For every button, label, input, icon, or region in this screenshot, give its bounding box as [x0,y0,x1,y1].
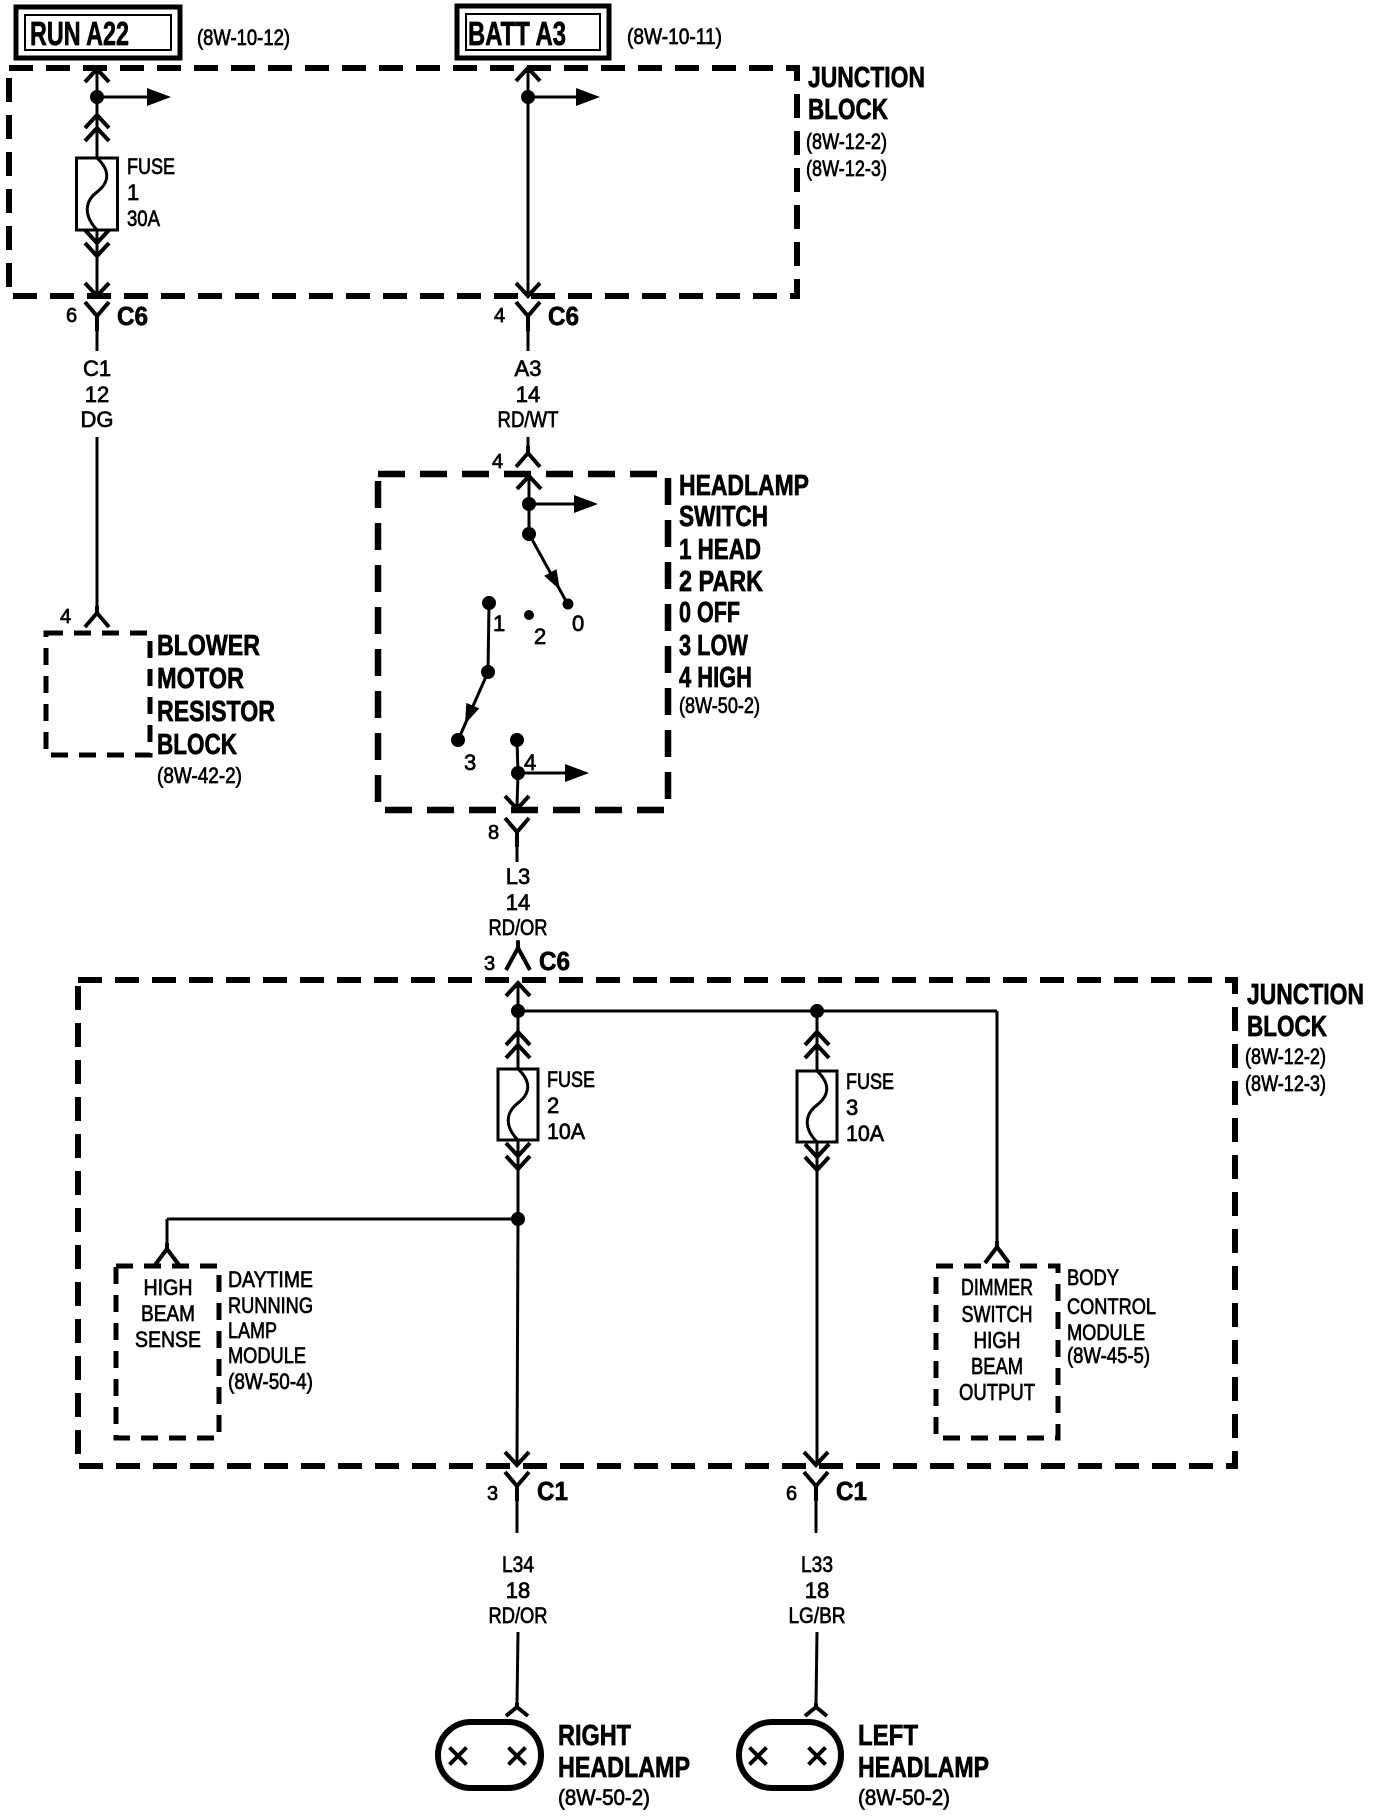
svg-text:LEFT: LEFT [858,1720,918,1752]
svg-text:FUSE: FUSE [846,1069,894,1094]
svg-text:1: 1 [493,611,505,636]
svg-text:BEAM: BEAM [971,1353,1023,1379]
svg-text:CONTROL: CONTROL [1067,1294,1156,1319]
svg-text:2: 2 [534,624,546,649]
svg-text:BLOCK: BLOCK [1247,1011,1327,1043]
svg-text:12: 12 [85,382,109,407]
svg-text:0 OFF: 0 OFF [679,597,740,629]
svg-text:RD/OR: RD/OR [489,1603,548,1628]
svg-text:3: 3 [487,1483,498,1505]
svg-text:BLOWER: BLOWER [157,630,260,662]
svg-text:BLOCK: BLOCK [157,729,237,761]
svg-text:BATT A3: BATT A3 [468,15,566,52]
svg-text:C1: C1 [83,356,111,381]
svg-text:(8W-12-3): (8W-12-3) [1245,1071,1326,1096]
svg-text:RIGHT: RIGHT [558,1720,631,1752]
svg-text:4: 4 [492,451,503,473]
svg-text:JUNCTION: JUNCTION [808,62,925,94]
svg-text:C6: C6 [548,301,579,331]
svg-text:18: 18 [805,1578,829,1603]
svg-text:(8W-50-4): (8W-50-4) [228,1369,313,1394]
svg-text:L3: L3 [506,864,530,889]
svg-text:6: 6 [66,305,77,327]
svg-text:DIMMER: DIMMER [961,1274,1033,1300]
svg-text:3 LOW: 3 LOW [679,630,748,662]
svg-text:3: 3 [464,750,476,775]
svg-text:DG: DG [81,407,114,432]
svg-text:2: 2 [547,1093,559,1118]
svg-text:(8W-50-2): (8W-50-2) [558,1785,650,1810]
svg-text:30A: 30A [127,206,160,231]
svg-text:1 HEAD: 1 HEAD [679,534,761,566]
svg-text:0: 0 [572,611,584,636]
svg-text:BEAM: BEAM [141,1301,195,1326]
svg-text:C1: C1 [836,1476,867,1506]
svg-text:HIGH: HIGH [974,1327,1021,1353]
svg-text:C6: C6 [539,946,570,976]
svg-text:8: 8 [488,822,499,844]
svg-text:FUSE: FUSE [547,1067,595,1092]
svg-text:RESISTOR: RESISTOR [157,696,275,728]
svg-text:SWITCH: SWITCH [679,501,768,533]
svg-text:6: 6 [786,1483,797,1505]
svg-text:L33: L33 [801,1552,833,1577]
svg-text:4: 4 [60,606,71,628]
svg-text:1: 1 [127,180,139,205]
svg-text:(8W-10-11): (8W-10-11) [627,24,722,49]
svg-text:3: 3 [846,1095,858,1120]
svg-text:(8W-50-2): (8W-50-2) [858,1785,950,1810]
svg-text:10A: 10A [846,1121,884,1146]
svg-text:RUN A22: RUN A22 [30,15,129,52]
svg-text:LG/BR: LG/BR [789,1603,846,1628]
svg-text:MODULE: MODULE [1067,1320,1145,1345]
svg-text:LAMP: LAMP [228,1318,277,1343]
svg-text:(8W-45-5): (8W-45-5) [1067,1343,1150,1368]
svg-text:C1: C1 [537,1476,568,1506]
svg-text:HEADLAMP: HEADLAMP [858,1752,989,1784]
svg-text:RUNNING: RUNNING [228,1293,313,1318]
svg-text:MODULE: MODULE [228,1343,306,1368]
svg-text:FUSE: FUSE [127,154,175,179]
svg-text:18: 18 [506,1578,530,1603]
svg-text:14: 14 [516,382,540,407]
svg-text:C6: C6 [117,301,148,331]
svg-text:RD/WT: RD/WT [498,407,559,432]
svg-text:3: 3 [484,953,495,975]
svg-text:(8W-42-2): (8W-42-2) [157,763,242,788]
svg-text:SENSE: SENSE [135,1327,201,1352]
svg-text:MOTOR: MOTOR [157,663,244,695]
svg-text:2 PARK: 2 PARK [679,566,763,598]
svg-text:A3: A3 [515,356,542,381]
svg-text:(8W-50-2): (8W-50-2) [679,693,760,718]
svg-text:(8W-10-12): (8W-10-12) [197,25,290,50]
svg-text:JUNCTION: JUNCTION [1247,979,1364,1011]
svg-text:HEADLAMP: HEADLAMP [679,470,809,502]
svg-text:BODY: BODY [1067,1265,1119,1290]
svg-text:DAYTIME: DAYTIME [228,1267,313,1292]
svg-text:HEADLAMP: HEADLAMP [558,1752,690,1784]
svg-text:(8W-12-2): (8W-12-2) [1245,1044,1326,1069]
svg-text:SWITCH: SWITCH [962,1301,1033,1327]
svg-text:4: 4 [494,305,505,327]
svg-text:4 HIGH: 4 HIGH [679,662,752,694]
svg-text:L34: L34 [502,1552,534,1577]
svg-text:BLOCK: BLOCK [808,94,888,126]
svg-text:RD/OR: RD/OR [489,915,548,940]
svg-text:10A: 10A [547,1119,585,1144]
svg-text:14: 14 [506,890,530,915]
svg-text:OUTPUT: OUTPUT [959,1379,1035,1405]
svg-text:4: 4 [524,750,536,775]
svg-text:(8W-12-3): (8W-12-3) [806,156,887,181]
svg-text:(8W-12-2): (8W-12-2) [806,129,887,154]
svg-text:HIGH: HIGH [144,1275,193,1300]
